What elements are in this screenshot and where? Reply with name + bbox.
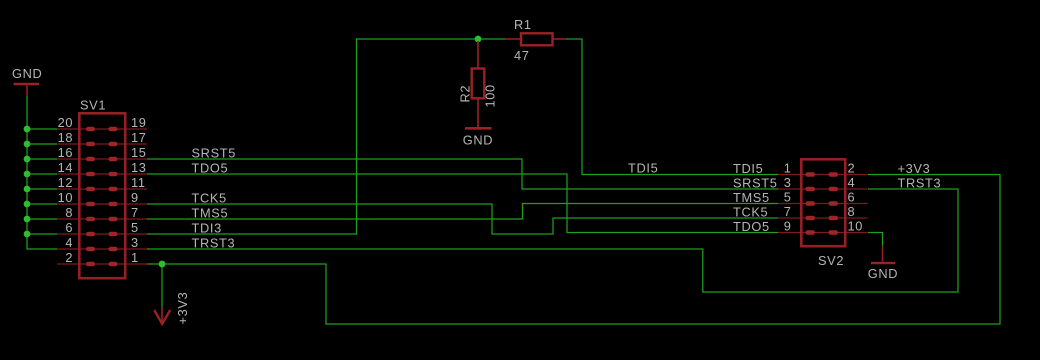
svg-text:3: 3 xyxy=(131,235,139,250)
junctions on GND bus xyxy=(24,126,31,238)
svg-text:TRST3: TRST3 xyxy=(898,176,942,191)
ground GND (below R2) xyxy=(463,128,493,147)
svg-text:TCK5: TCK5 xyxy=(733,205,768,220)
svg-text:10: 10 xyxy=(58,190,74,205)
svg-text:19: 19 xyxy=(131,115,147,130)
svg-text:7: 7 xyxy=(784,204,792,219)
connector SV1 body xyxy=(79,113,125,278)
connector SV2 body xyxy=(801,159,845,246)
svg-text:11: 11 xyxy=(131,175,146,190)
svg-text:13: 13 xyxy=(131,160,147,175)
svg-text:5: 5 xyxy=(784,190,792,205)
svg-text:R1: R1 xyxy=(514,17,532,32)
svg-text:20: 20 xyxy=(58,115,74,130)
ground GND (top left) xyxy=(12,66,42,96)
SV1 pin pads xyxy=(86,127,118,267)
SV1 pin stubs xyxy=(57,129,147,264)
SV2 even pin numbers (right) xyxy=(848,161,864,234)
svg-text:TDI5: TDI5 xyxy=(733,161,763,176)
resistor R1 xyxy=(506,33,567,45)
svg-text:TDI5: TDI5 xyxy=(628,161,658,176)
wire TRST3 xyxy=(147,189,958,292)
SV2 odd pin numbers (left) xyxy=(784,161,792,234)
svg-text:3: 3 xyxy=(784,175,792,190)
svg-text:15: 15 xyxy=(131,145,147,160)
svg-text:16: 16 xyxy=(58,145,74,160)
svg-text:SV1: SV1 xyxy=(80,98,106,113)
wire TCK5 xyxy=(147,204,778,234)
wire TDI5 (left part, SV1 pin5 to R1) xyxy=(147,39,506,234)
svg-text:4: 4 xyxy=(848,175,856,190)
svg-text:+3V3: +3V3 xyxy=(898,161,931,176)
svg-text:9: 9 xyxy=(784,219,792,234)
svg-text:1: 1 xyxy=(784,161,792,176)
svg-text:TMS5: TMS5 xyxy=(192,206,229,221)
svg-text:17: 17 xyxy=(131,130,147,145)
svg-text:SV2: SV2 xyxy=(818,253,844,268)
svg-text:SRST5: SRST5 xyxy=(733,176,778,191)
svg-text:1: 1 xyxy=(131,250,139,265)
SV2 pin pads xyxy=(806,172,839,235)
junction +3V3 node xyxy=(159,261,166,268)
wire +3V3 net xyxy=(147,175,1000,325)
svg-text:7: 7 xyxy=(131,205,139,220)
svg-text:GND: GND xyxy=(463,133,493,148)
svg-text:TMS5: TMS5 xyxy=(733,190,770,205)
svg-text:GND: GND xyxy=(868,266,898,281)
wire TDO5 xyxy=(147,174,778,233)
svg-text:4: 4 xyxy=(65,235,73,250)
wire SV2 pin10 to GND xyxy=(868,233,883,246)
svg-text:9: 9 xyxy=(131,190,139,205)
svg-text:8: 8 xyxy=(65,205,73,220)
svg-text:R2: R2 xyxy=(458,85,473,103)
wire TMS5 xyxy=(147,204,778,220)
svg-text:TDI3: TDI3 xyxy=(192,221,222,236)
svg-text:TCK5: TCK5 xyxy=(192,191,227,206)
svg-text:100: 100 xyxy=(483,84,498,107)
wire TDI5 (right part, R1 to SV2 pin1) xyxy=(566,39,778,175)
wire +3V3 branch to supply arrow xyxy=(161,264,163,307)
svg-text:TRST3: TRST3 xyxy=(192,236,236,251)
wire SRST5 xyxy=(147,159,778,189)
svg-text:TDO5: TDO5 xyxy=(192,161,229,176)
svg-text:10: 10 xyxy=(848,219,864,234)
svg-text:6: 6 xyxy=(65,220,73,235)
wire GND net (left vertical bus to SV1 even pins) xyxy=(27,96,57,249)
svg-text:2: 2 xyxy=(848,161,856,176)
resistor R2 xyxy=(472,41,485,127)
SV1 even pin numbers (left) xyxy=(58,115,74,265)
svg-text:SRST5: SRST5 xyxy=(192,146,237,161)
SV1 odd pin numbers (right) xyxy=(131,115,147,265)
svg-text:5: 5 xyxy=(131,220,139,235)
junction TDI5 node at R2 xyxy=(475,36,482,43)
svg-text:2: 2 xyxy=(65,250,73,265)
svg-text:6: 6 xyxy=(848,190,856,205)
svg-text:+3V3: +3V3 xyxy=(175,292,190,325)
svg-text:14: 14 xyxy=(58,160,74,175)
svg-text:GND: GND xyxy=(12,66,42,81)
svg-text:47: 47 xyxy=(514,48,530,63)
svg-text:TDO5: TDO5 xyxy=(733,219,770,234)
ground GND (below SV2) xyxy=(868,246,898,282)
svg-text:18: 18 xyxy=(58,130,74,145)
svg-text:12: 12 xyxy=(58,175,74,190)
supply +3V3 arrow xyxy=(154,307,170,324)
svg-text:8: 8 xyxy=(848,204,856,219)
SV2 pin stubs xyxy=(778,175,868,233)
